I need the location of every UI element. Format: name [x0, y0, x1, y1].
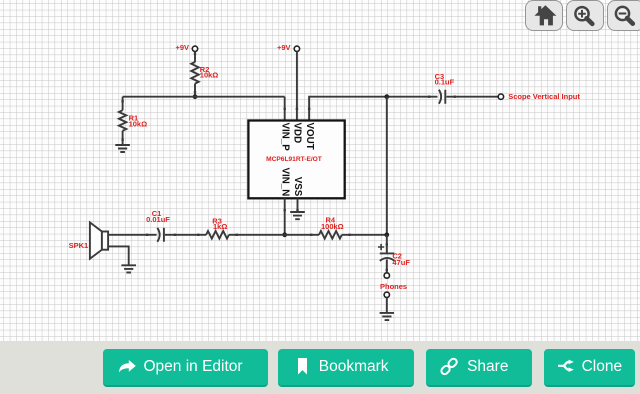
- node Phones terminal (top): [384, 273, 389, 278]
- svg-text:Scope Vertical Input: Scope Vertical Input: [508, 92, 580, 101]
- node +9V terminal (left): [192, 46, 197, 51]
- svg-text:0.1uF: 0.1uF: [435, 78, 455, 87]
- resistor R3: [206, 231, 229, 239]
- wire junction to R4: [285, 234, 319, 236]
- capacitor C1: [157, 228, 164, 242]
- node Scope terminal: [498, 94, 503, 99]
- wire feedback drop: [386, 97, 388, 235]
- junction at R2 bottom: [193, 94, 198, 99]
- button Share: [426, 349, 532, 387]
- svg-text:0.01uF: 0.01uF: [146, 215, 170, 224]
- svg-text:SPK1: SPK1: [69, 241, 89, 250]
- svg-text:47uF: 47uF: [392, 258, 410, 267]
- component terminal pads: [121, 53, 456, 272]
- op-amp U1 MCP6L91RT-E/OT box: [248, 121, 344, 199]
- open-in-editor arrow icon: [119, 360, 136, 373]
- wire R3 to VIN_N junction: [229, 234, 285, 236]
- svg-text:Phones: Phones: [380, 282, 407, 291]
- wire SPK1 bottom terminal to ground: [108, 246, 129, 265]
- wire Phones to ground: [386, 298, 388, 313]
- home icon: [534, 5, 556, 25]
- zoom-in icon: [575, 7, 588, 20]
- wire VIN_P drop: [284, 97, 286, 121]
- svg-text:VOUT: VOUT: [304, 123, 315, 150]
- button Bookmark: [278, 349, 413, 387]
- wire R1 top lead: [122, 97, 124, 111]
- wire to C2: [386, 235, 388, 254]
- wire VDD: [296, 52, 298, 121]
- wire C2 to Phones terminal: [386, 259, 388, 272]
- svg-text:1kΩ: 1kΩ: [213, 222, 227, 231]
- wire C3 to scope terminal: [446, 96, 498, 98]
- svg-text:100kΩ: 100kΩ: [321, 222, 344, 231]
- wire R2 to node: [194, 84, 196, 97]
- toolbar button zoom-in: [566, 0, 604, 31]
- svg-text:10kΩ: 10kΩ: [200, 71, 219, 80]
- bottom bar: [0, 341, 640, 394]
- svg-text:+9V: +9V: [175, 43, 189, 52]
- svg-text:10kΩ: 10kΩ: [129, 120, 148, 129]
- junction VOUT/feedback: [384, 94, 389, 99]
- wire +9V to R2: [194, 52, 196, 62]
- button Open in Editor: [103, 349, 268, 387]
- wire R4 to output junction: [342, 234, 387, 236]
- resistor R2: [191, 62, 198, 84]
- capacitor C2: [380, 253, 395, 261]
- toolbar button home: [525, 0, 563, 31]
- zoom-out icon: [616, 7, 629, 20]
- ground (SPK1): [121, 265, 136, 272]
- button Clone: [544, 349, 636, 387]
- junction output/C2: [384, 232, 389, 237]
- svg-text:VIN_N: VIN_N: [279, 167, 290, 196]
- wire top-left horizontal rail: [123, 96, 285, 98]
- share link icon: [440, 357, 458, 375]
- wire R1 to ground: [122, 131, 124, 145]
- clone fork icon: [558, 362, 569, 370]
- ground (VSS): [290, 212, 305, 219]
- wire SPK1 top terminal to C1: [108, 234, 157, 236]
- wire VSS to ground: [297, 198, 299, 212]
- svg-text:VSS: VSS: [292, 177, 303, 197]
- toolbar button zoom-out: [607, 0, 640, 31]
- junction VIN_N / signal: [282, 232, 287, 237]
- wire C1 to R3: [165, 234, 206, 236]
- svg-text:VDD: VDD: [292, 123, 303, 144]
- svg-text:VIN_P: VIN_P: [279, 123, 290, 152]
- wire VOUT up and right: [309, 97, 437, 121]
- resistor R4: [319, 231, 342, 239]
- speaker SPK1: [90, 222, 102, 258]
- ground (Phones): [380, 313, 394, 320]
- bookmark icon: [298, 358, 307, 375]
- node Phones terminal (bottom): [384, 292, 389, 297]
- svg-text:MCP6L91RT-E/OT: MCP6L91RT-E/OT: [266, 156, 322, 163]
- node +9V terminal (right): [294, 46, 299, 51]
- wire VIN_N drop: [284, 198, 286, 235]
- ground (R1): [115, 145, 130, 152]
- resistor R1: [119, 110, 126, 130]
- svg-text:+9V: +9V: [277, 43, 291, 52]
- capacitor C2 plus sign: [378, 244, 384, 250]
- capacitor C3: [439, 90, 446, 104]
